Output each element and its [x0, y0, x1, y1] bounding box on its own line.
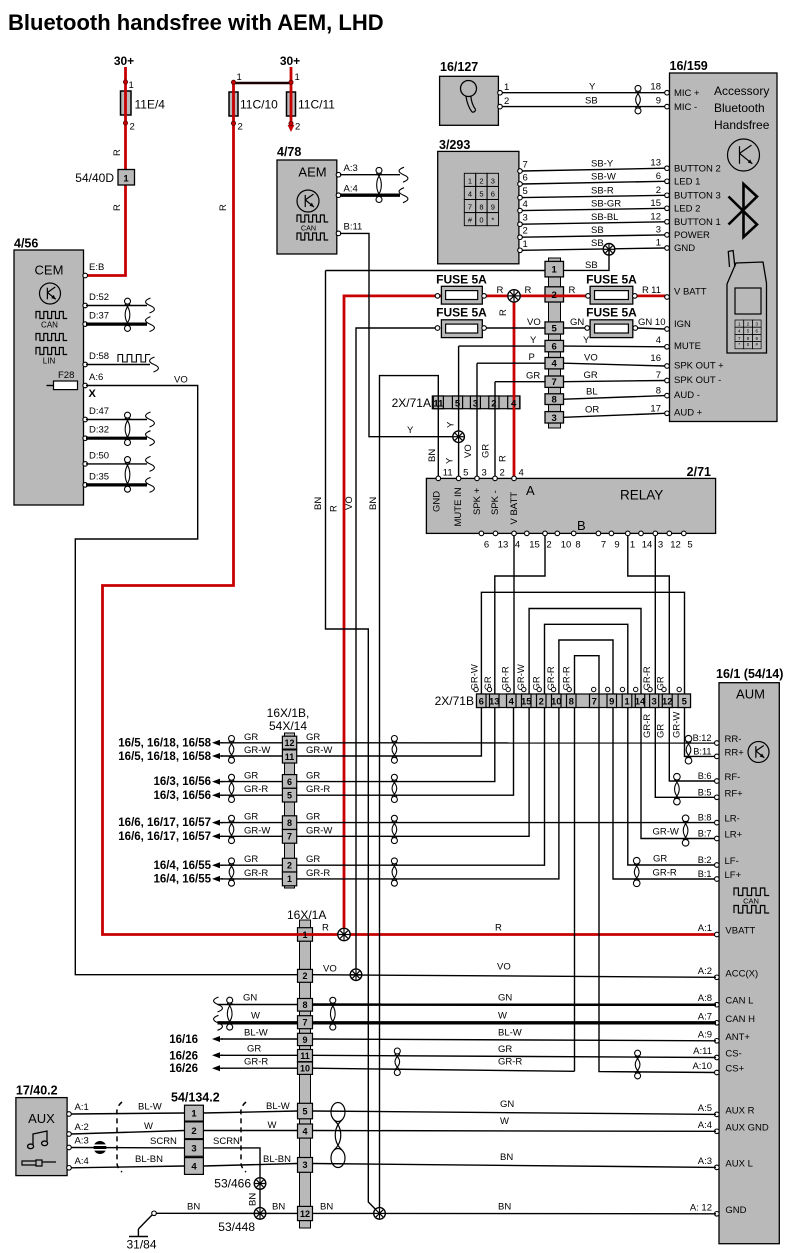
svg-text:GR: GR	[247, 1044, 261, 1055]
svg-text:Y: Y	[583, 335, 590, 346]
svg-text:9: 9	[302, 1035, 307, 1045]
relay B pin 6	[479, 531, 484, 536]
svg-text:11: 11	[443, 468, 453, 479]
AUM pin B:5 RF+	[715, 795, 720, 800]
relay B pin 13	[493, 531, 498, 536]
wire P to connector pin 4	[477, 362, 545, 364]
wire GR-R 2X/71B.3 to AUM B:5	[655, 708, 716, 798]
svg-text:B:1: B:1	[698, 869, 712, 879]
16X/1B pin 5	[282, 788, 296, 802]
svg-text:X: X	[89, 388, 97, 400]
relay B pin 15	[525, 531, 530, 536]
relay B pin 8	[571, 531, 576, 536]
svg-text:8: 8	[575, 540, 580, 551]
svg-text:A:2: A:2	[698, 966, 712, 977]
AUM pin A:1 VBATT	[715, 932, 720, 937]
svg-text:GR-R: GR-R	[653, 868, 677, 879]
wire GN 10 to IGN pin	[637, 328, 665, 329]
svg-text:AUX L: AUX L	[725, 1158, 752, 1169]
svg-text:*: *	[491, 216, 494, 225]
wire BL from connector pin 8 to AUD - pin	[564, 396, 665, 400]
connector strip pin 6	[545, 340, 564, 351]
svg-text:A:11: A:11	[693, 1046, 712, 1057]
relay A pin 4	[512, 476, 517, 481]
2X/71A pin 2	[489, 396, 499, 409]
relay B pin 10	[555, 531, 560, 536]
AEM pin B:11	[336, 231, 341, 236]
svg-text:SB: SB	[591, 225, 604, 236]
connector strip pin 5	[545, 322, 564, 334]
svg-text:GR-R: GR-R	[306, 784, 330, 795]
wire GN into 16X/1A.8	[214, 997, 223, 1012]
16X/1B pin 6	[282, 775, 296, 789]
mobile phone symbol	[727, 262, 767, 353]
wire GR-W left of 16X/1B.11	[221, 755, 282, 757]
wire W 16X/1A.7 to AUM A:7 CAN H	[313, 1021, 717, 1024]
3/293 pin 5 wire SB-R to unit pin 2	[518, 195, 523, 200]
svg-text:CAN: CAN	[301, 224, 316, 233]
wire GR into 16X/1A.11 from 16/26	[212, 1052, 220, 1058]
connector strip body	[549, 258, 561, 428]
svg-text:GR-W: GR-W	[244, 825, 270, 836]
relay B pin 4	[512, 531, 517, 536]
wire BL-W AUX A:1 to 54/134.2 pin 1	[71, 1113, 185, 1114]
wire D:47 (twisted)	[86, 419, 147, 421]
2X/71A pin 11	[433, 396, 443, 409]
svg-text:GR-W: GR-W	[306, 825, 332, 836]
wire BL-W into 16X/1A.9 from 16/16	[212, 1036, 220, 1042]
wire BN 16X/1A.12 to AUM A:12 GND	[313, 1212, 717, 1214]
svg-text:VO: VO	[323, 964, 337, 975]
wire Y from connector pin 6 to MUTE pin	[564, 345, 665, 348]
svg-text:8: 8	[569, 697, 574, 708]
16X/1A pin 4	[298, 1124, 313, 1138]
svg-text:13: 13	[650, 158, 661, 169]
loop wire 2X/71B pin 2 to pin 1	[545, 624, 628, 694]
svg-text:GND: GND	[725, 1205, 746, 1216]
svg-text:30+: 30+	[280, 54, 300, 68]
CEM pin D:50	[83, 462, 88, 467]
16X/1A pin 12	[298, 1206, 313, 1220]
twisted pair symbol LR	[682, 815, 689, 822]
AUM CAN symbol	[734, 888, 769, 896]
twisted pair CS right	[635, 1050, 641, 1056]
connector strip pin 8	[545, 394, 564, 405]
AUX pin A:3	[67, 1145, 72, 1150]
svg-text:BN: BN	[248, 1193, 259, 1206]
svg-text:F28: F28	[58, 370, 74, 381]
shield dashes left of 54/134.2	[117, 1102, 122, 1172]
loop wire 2X/71B pin 15 to pin 14	[529, 609, 641, 695]
svg-text:*: *	[738, 342, 740, 347]
twisted pair symbol on D:52/D:37	[125, 298, 131, 304]
svg-text:4: 4	[656, 335, 661, 346]
2X/71A pin 5	[452, 396, 462, 409]
relay B pin 2	[543, 531, 548, 536]
svg-text:8: 8	[287, 818, 292, 828]
svg-text:SPK +: SPK +	[472, 487, 483, 515]
svg-text:15: 15	[521, 697, 532, 708]
svg-text:GR-R: GR-R	[306, 868, 330, 879]
svg-text:B:8: B:8	[698, 813, 712, 823]
svg-text:10: 10	[655, 317, 666, 328]
svg-text:2X/71B: 2X/71B	[435, 694, 474, 708]
twisted pair symbol mid 6/5	[391, 774, 397, 780]
svg-text:FUSE 5A: FUSE 5A	[586, 273, 637, 287]
svg-text:1: 1	[630, 540, 635, 551]
2X/71B pin 3	[650, 694, 659, 708]
svg-text:9: 9	[656, 96, 661, 107]
wire D:37 (CAN, thick)	[86, 323, 147, 326]
svg-text:2: 2	[191, 1126, 196, 1137]
wire relay B2 to 2X/71B pin 13	[495, 536, 545, 694]
AUM ecu symbol	[748, 742, 769, 763]
CEM pin D:47	[83, 417, 88, 422]
svg-text:W: W	[144, 1121, 153, 1132]
svg-text:BN: BN	[368, 497, 379, 510]
svg-text:5: 5	[455, 398, 461, 409]
twisted pair symbol 16X/1B 12/11	[229, 736, 235, 742]
wire GR 16X/1B.12 to AUM B:12	[297, 742, 716, 744]
svg-text:6: 6	[491, 189, 495, 198]
16X/1A pin 1	[298, 928, 313, 942]
wire W 54/134.2 to 16X/1A.4	[203, 1130, 297, 1132]
svg-text:10: 10	[561, 540, 572, 551]
svg-text:18: 18	[650, 82, 661, 93]
svg-text:2: 2	[552, 290, 557, 301]
arrow to speaker wiring 16X/1B.1	[212, 876, 220, 882]
AUM pin A:4 AUX GND	[715, 1129, 720, 1134]
AUM pin B:1 LF+	[715, 877, 720, 882]
wire VO from fuse to connector pin 5	[486, 327, 545, 329]
svg-text:12: 12	[650, 211, 661, 222]
svg-text:LF+: LF+	[725, 870, 742, 881]
16/127 pin 2	[498, 104, 503, 109]
svg-text:7: 7	[656, 370, 661, 381]
svg-text:4: 4	[468, 189, 472, 198]
svg-text:12: 12	[284, 738, 294, 748]
relay B pin 12	[667, 531, 672, 536]
svg-text:RR+: RR+	[725, 747, 745, 758]
3/293 pin 4 wire SB-GR to unit pin 15	[518, 208, 523, 213]
svg-text:BL-W: BL-W	[498, 1028, 522, 1039]
svg-text:3: 3	[191, 1143, 196, 1154]
svg-text:AEM: AEM	[298, 165, 326, 180]
splice VO ACC	[350, 969, 362, 981]
AUM pin A:2 ACC(X)	[715, 975, 720, 980]
svg-text:4: 4	[191, 1162, 197, 1173]
svg-text:W: W	[498, 1011, 507, 1022]
twisted pair symbol RF	[674, 773, 681, 780]
svg-text:W: W	[251, 1011, 260, 1022]
svg-text:3: 3	[658, 540, 663, 551]
svg-text:R: R	[329, 505, 340, 512]
svg-text:A:3: A:3	[75, 1136, 89, 1147]
2X/71B pin 2	[537, 694, 547, 708]
fuse 5A battery-right body	[590, 286, 633, 304]
AUM pin B:11 RR+	[715, 754, 720, 759]
svg-text:5: 5	[287, 790, 292, 800]
svg-text:AUD -: AUD -	[674, 390, 700, 401]
wire GR 2X/71B.7 down to AUM A:10	[599, 708, 716, 1073]
svg-text:SB-BL: SB-BL	[591, 212, 618, 223]
wire GR-R left of 16X/1B.1	[221, 878, 282, 880]
relay B pin 1	[626, 531, 631, 536]
svg-text:5: 5	[552, 323, 558, 334]
3/293 pin 1 wire SB to unit pin 1	[518, 248, 523, 253]
AUM pin B:12 RR-	[715, 741, 720, 746]
svg-text:GR: GR	[244, 732, 258, 743]
svg-text:GND: GND	[432, 491, 443, 512]
svg-text:BL-BN: BL-BN	[135, 1154, 163, 1165]
svg-text:LIN: LIN	[43, 357, 56, 366]
svg-text:3: 3	[482, 468, 487, 479]
svg-text:Bluetooth: Bluetooth	[714, 101, 765, 115]
wire R: branch from splice down through 2X/71A pin 4 to relay A pin 4	[513, 296, 516, 479]
CEM pin D:35	[83, 483, 88, 488]
wire VO 16X/1A.2 to AUM A:2	[313, 975, 717, 978]
svg-text:VO: VO	[344, 496, 355, 510]
terminator arrow below fuse 11C/11 pin 2	[288, 125, 295, 132]
AUM pin A: 12 GND	[715, 1212, 720, 1217]
svg-text:FUSE 5A: FUSE 5A	[586, 306, 637, 320]
svg-text:CAN: CAN	[743, 897, 759, 906]
svg-text:A:4: A:4	[344, 184, 358, 195]
music note symbol	[28, 1131, 48, 1149]
svg-text:1: 1	[129, 80, 134, 91]
svg-text:3/293: 3/293	[439, 138, 470, 152]
svg-text:A:10: A:10	[692, 1061, 712, 1072]
svg-text:RELAY: RELAY	[620, 488, 663, 503]
CEM pin D:58	[83, 362, 88, 367]
svg-text:VO: VO	[584, 353, 598, 364]
svg-text:VBATT: VBATT	[725, 926, 755, 937]
AUX pin A:1	[67, 1112, 72, 1117]
svg-text:SCRN: SCRN	[213, 1136, 240, 1147]
16/159 pin GND	[665, 246, 670, 251]
2X/71B pin 13	[490, 694, 500, 708]
svg-text:IGN: IGN	[674, 319, 691, 330]
svg-text:3: 3	[473, 398, 478, 409]
svg-text:Y: Y	[530, 335, 537, 346]
wire from AEM B:11 down to Y splice (mute)	[340, 233, 457, 436]
svg-text:10: 10	[551, 697, 562, 708]
svg-text:R: R	[569, 285, 576, 296]
svg-text:GR-W: GR-W	[653, 827, 679, 838]
svg-text:16/5, 16/18, 16/58: 16/5, 16/18, 16/58	[118, 737, 211, 749]
svg-text:4: 4	[509, 697, 515, 708]
wire from AEM A:3 (twisted)	[340, 174, 400, 176]
svg-text:GN: GN	[638, 317, 652, 328]
svg-text:AUD +: AUD +	[674, 408, 703, 419]
svg-text:3: 3	[656, 224, 661, 235]
svg-text:54/40D: 54/40D	[75, 171, 114, 185]
svg-text:GR: GR	[653, 854, 667, 865]
svg-text:2: 2	[491, 398, 496, 409]
svg-text:1: 1	[295, 72, 300, 83]
aux input unit 17/40.2	[16, 1098, 67, 1176]
16/159 pin SPK OUT -	[665, 378, 670, 383]
wire GR-R into 16X/1A.10 from 16/26	[212, 1065, 220, 1071]
svg-text:54X/14: 54X/14	[269, 719, 307, 733]
wire GR-W 2X/71B.14 to AUM B:7	[641, 708, 716, 839]
16X/1B pin 12	[282, 736, 296, 749]
wire GR left of 16X/1B.12	[221, 742, 282, 744]
svg-text:GR: GR	[306, 771, 320, 782]
svg-text:1: 1	[624, 697, 630, 708]
svg-text:R: R	[112, 149, 123, 156]
svg-text:16/127: 16/127	[440, 60, 478, 74]
svg-text:0: 0	[479, 216, 483, 225]
wire GR-R 2X/71B.9 to AUM B:1	[613, 708, 716, 880]
svg-text:B:12: B:12	[693, 733, 712, 743]
svg-text:5: 5	[682, 697, 688, 708]
3/293 pin 2 wire SB to unit pin 3	[518, 235, 523, 240]
svg-text:GR-R: GR-R	[642, 714, 653, 738]
svg-text:GR-R: GR-R	[244, 1057, 268, 1068]
svg-text:SB: SB	[585, 260, 598, 271]
svg-text:BN: BN	[498, 1202, 511, 1213]
svg-text:2: 2	[238, 122, 243, 133]
svg-text:1: 1	[287, 874, 292, 884]
svg-text:R: R	[112, 204, 123, 211]
jack plug symbol	[22, 1160, 56, 1166]
svg-text:GN: GN	[570, 317, 584, 328]
wire GR 2X/71B.12 to AUM B:6	[669, 708, 716, 782]
svg-text:7: 7	[468, 203, 472, 212]
shield dashes right of 54/134.2	[241, 1102, 246, 1172]
shield terminal on SCRN wire	[71, 1147, 185, 1149]
wire GR 16X/1B.8 to AUM B:8	[297, 822, 716, 824]
splice BN ground	[374, 1208, 386, 1220]
wire W 16X/1A.4 to AUM A:4 AUX GND	[313, 1130, 717, 1133]
fuse 11C/10 pin 2	[231, 121, 235, 125]
wire D:32 (thick)	[86, 437, 147, 440]
svg-text:17: 17	[650, 404, 661, 415]
svg-text:ANT+: ANT+	[725, 1032, 750, 1043]
svg-text:6: 6	[484, 540, 489, 551]
twisted pair symbol mid 8/7	[391, 815, 397, 821]
svg-text:GR: GR	[244, 812, 258, 823]
loop wire 2X/71B pin 10 to pin 9	[559, 640, 613, 694]
svg-text:SB-GR: SB-GR	[591, 198, 621, 209]
svg-text:P: P	[529, 352, 535, 363]
svg-text:11: 11	[300, 1051, 310, 1061]
16/159 ecu symbol	[728, 139, 760, 171]
svg-text:AUX R: AUX R	[725, 1105, 754, 1116]
svg-text:7: 7	[523, 160, 528, 171]
svg-text:14: 14	[635, 697, 646, 708]
bluetooth symbol	[729, 184, 758, 237]
svg-text:4: 4	[519, 468, 524, 479]
svg-text:11C/11: 11C/11	[298, 98, 335, 112]
svg-text:BUTTON 3: BUTTON 3	[674, 191, 721, 202]
svg-text:8: 8	[479, 203, 483, 212]
twisted pair symbol on D:50/D:35	[125, 457, 131, 463]
svg-text:B:6: B:6	[698, 771, 712, 781]
svg-text:B: B	[577, 518, 586, 533]
svg-text:5: 5	[687, 540, 692, 551]
svg-text:SB-W: SB-W	[591, 172, 616, 183]
svg-text:BN: BN	[427, 449, 438, 462]
54/134.2 pin 2	[185, 1122, 204, 1139]
wire GR-W 2X/71B.5 to AUM B:11	[685, 708, 717, 757]
AUX pin A:2	[67, 1132, 72, 1137]
16/159 pin V BATT	[665, 295, 670, 300]
arrow to speaker wiring 16X/1B.8	[212, 820, 220, 826]
svg-text:BL-W: BL-W	[138, 1102, 162, 1113]
svg-text:16/16: 16/16	[169, 1034, 198, 1046]
AUM pin A:5 AUX R	[715, 1112, 720, 1117]
fuse 5A ign-right body	[590, 320, 633, 338]
svg-text:AUX: AUX	[28, 1111, 55, 1126]
wire SCRN to ground 53/466	[203, 1148, 260, 1214]
relay A pin 3	[475, 476, 480, 481]
svg-text:2: 2	[656, 185, 661, 196]
svg-text:VO: VO	[527, 317, 541, 328]
svg-text:11C/10: 11C/10	[240, 98, 278, 112]
wire BL-W 16X/1A.9 to AUM A:9 ANT+	[313, 1039, 717, 1041]
svg-text:Handsfree: Handsfree	[714, 118, 770, 132]
svg-text:A:7: A:7	[698, 1011, 712, 1022]
fuse 5A battery-left body	[441, 286, 482, 304]
CEM pin D:37	[83, 322, 88, 327]
AEM pin A:3	[336, 172, 341, 177]
svg-text:A:3: A:3	[344, 163, 358, 174]
svg-text:SCRN: SCRN	[150, 1136, 177, 1147]
3/293 pin 6 wire SB-W to unit pin 6	[518, 182, 523, 187]
svg-text:BN: BN	[500, 1152, 513, 1163]
svg-text:W: W	[500, 1116, 509, 1127]
svg-text:GN: GN	[498, 993, 512, 1004]
svg-text:LED 2: LED 2	[674, 204, 700, 215]
2X/71B pin 10	[552, 694, 562, 708]
svg-text:2: 2	[479, 176, 483, 185]
connector strip pin 2	[545, 287, 564, 302]
svg-text:BN: BN	[187, 1202, 200, 1213]
wire GN 16X/1A.5 to AUM A:5 AUX R	[313, 1111, 717, 1114]
svg-text:MUTE: MUTE	[674, 341, 701, 352]
svg-text:A:4: A:4	[698, 1120, 712, 1131]
ground splice 53/448	[254, 1208, 266, 1220]
svg-text:5: 5	[479, 189, 483, 198]
svg-text:RF+: RF+	[725, 788, 744, 799]
2X/71B pin 4	[507, 694, 517, 708]
svg-text:2: 2	[539, 697, 544, 708]
svg-text:A:3: A:3	[698, 1156, 712, 1167]
wire VO/IGN from fuse left down to ACC splice	[356, 328, 437, 975]
wire OR from connector pin 3 to AUD + pin	[564, 413, 665, 417]
16/159 pin BUTTON 1	[665, 220, 670, 225]
svg-text:2: 2	[500, 468, 505, 479]
svg-text:9: 9	[614, 540, 619, 551]
svg-text:1: 1	[656, 238, 661, 249]
svg-text:7: 7	[592, 697, 597, 708]
AUM pin A:10 CS+	[715, 1070, 720, 1075]
wire GR-R 2X/71B.8 down to CS+ wire	[574, 708, 576, 1072]
svg-text:2/71: 2/71	[687, 465, 711, 479]
2X/71B pin 1	[622, 694, 632, 708]
wire GR-W left of 16X/1B.7	[221, 835, 282, 837]
svg-text:R: R	[497, 285, 504, 296]
svg-text:4/78: 4/78	[277, 145, 301, 159]
arrow to speaker wiring 16X/1B.12	[212, 740, 220, 746]
wire Y vertical through 2X/71A pin 5 to relay MUTE IN	[458, 346, 460, 478]
AUM pin A:9 ANT+	[715, 1039, 720, 1044]
svg-text:9: 9	[609, 697, 614, 708]
wire GN 16X/1A.8 to AUM A:8 CAN L	[313, 1003, 717, 1006]
connector 2X/71A body	[432, 396, 520, 409]
